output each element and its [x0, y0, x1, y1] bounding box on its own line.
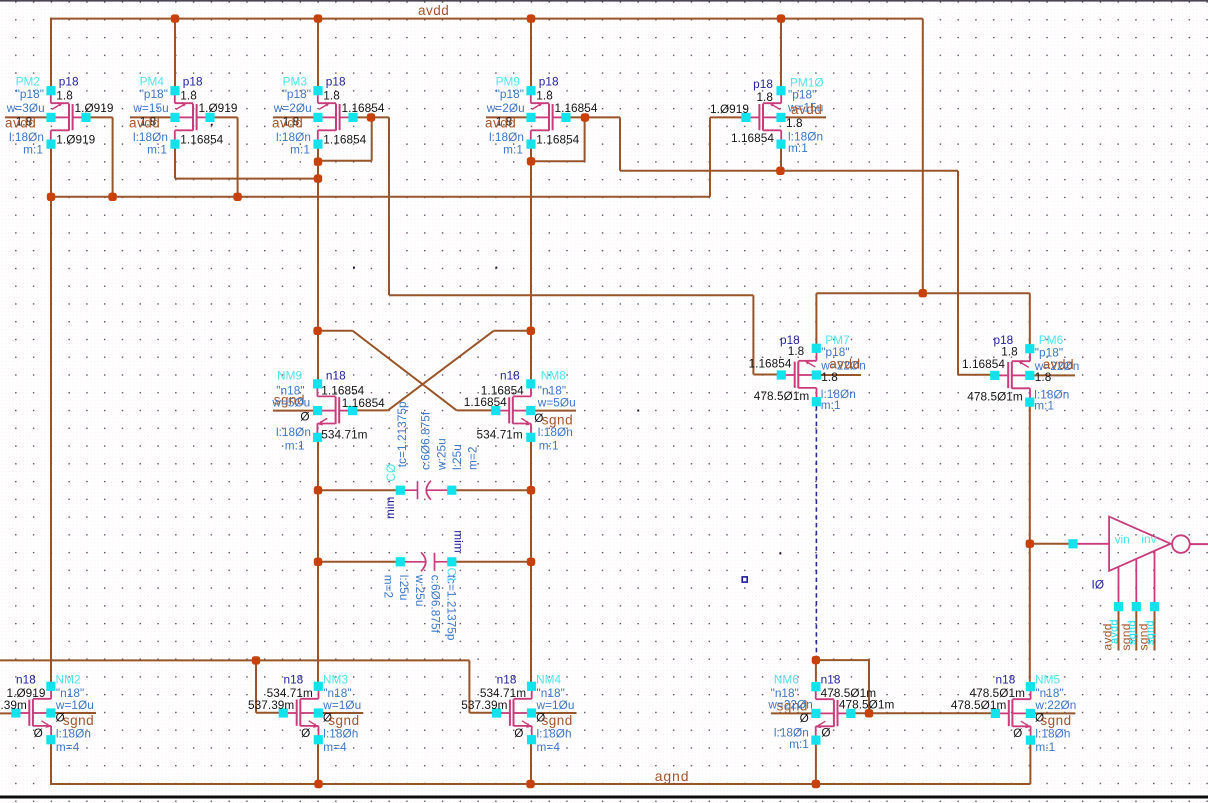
svg-text:1.16854: 1.16854 [731, 131, 774, 145]
wire PM9 gate drop [619, 117, 621, 170]
svg-text:m:1: m:1 [147, 143, 167, 157]
svg-text:n18: n18 [500, 369, 520, 383]
wire NM5 source to agnd [1029, 744, 1031, 784]
junction PM2 drain rail [47, 193, 55, 201]
pin I0 avdd [1114, 602, 1123, 611]
svg-text:l:25u: l:25u [397, 575, 411, 601]
junction agnd NM4 [526, 780, 534, 788]
wire NM9 bulk stub [273, 410, 318, 412]
transistor NM4 [500, 690, 532, 735]
pins PM6 [1025, 344, 1034, 353]
pin C1.1 [396, 557, 405, 566]
pins NM8 [526, 379, 535, 388]
transistor PM10 [750, 95, 782, 140]
svg-text:537.39m: 537.39m [461, 698, 507, 712]
svg-text:w:25u: w:25u [413, 574, 427, 607]
svg-text:Ø: Ø [301, 726, 310, 740]
wire PM3 diode loop horizontal [318, 160, 372, 162]
svg-text:n18: n18 [497, 673, 517, 687]
pins PM10 [776, 86, 785, 95]
wire avdd drop to PM3 [317, 19, 319, 87]
svg-text:478.5Ø1m: 478.5Ø1m [839, 698, 895, 712]
svg-text:1.8: 1.8 [786, 116, 803, 130]
wire PM3 gate long riser [388, 117, 390, 295]
svg-text:w=2Øu: w=2Øu [273, 101, 312, 115]
wire PM2 drain down long [50, 148, 52, 683]
pins NM3 [314, 682, 323, 691]
svg-text:NM2: NM2 [56, 673, 81, 687]
junction PM9 diode loop [527, 157, 535, 165]
svg-text:p18: p18 [753, 77, 773, 91]
svg-text:478.5Ø1m: 478.5Ø1m [967, 390, 1023, 404]
svg-text:"p18": "p18" [16, 87, 44, 101]
wire NM4 source to agnd [530, 744, 532, 785]
svg-text:avdd: avdd [485, 116, 516, 131]
inverter I0 [1077, 517, 1208, 603]
svg-text:avdd: avdd [5, 116, 36, 131]
wire PM6 drain down to NM5 [1029, 406, 1031, 682]
svg-text:1.16854: 1.16854 [555, 101, 598, 115]
svg-text:1.Ø919: 1.Ø919 [199, 101, 238, 115]
wire C0 right [454, 489, 531, 491]
transistor PM9 [531, 95, 563, 140]
wire NM4 bulk stub [532, 712, 577, 714]
svg-text:NM8: NM8 [541, 369, 566, 383]
svg-text:m=4: m=4 [323, 740, 347, 754]
wire NM6 gate to NM5 gate [854, 712, 994, 714]
wire PM9 bulk stub [486, 116, 531, 118]
wire PM3 drain down to NM9 [317, 148, 319, 381]
svg-text:1.16854: 1.16854 [180, 133, 223, 147]
wire C1 left [318, 561, 398, 563]
svg-text:m=4: m=4 [537, 740, 561, 754]
pins NM9 [313, 379, 322, 388]
dashed net PM7 drain [815, 406, 817, 657]
wire NM4 gate horizontal [469, 712, 499, 714]
svg-text:Ø: Ø [821, 725, 830, 739]
svg-text:inv: inv [1141, 532, 1156, 546]
svg-text:l:18Øn: l:18Øn [276, 425, 311, 439]
transistor NM2 [19, 690, 51, 735]
junction NM6 gate [865, 709, 873, 717]
svg-text:n18: n18 [283, 673, 303, 687]
svg-text:n18: n18 [996, 673, 1016, 687]
pins PM9 [526, 86, 535, 95]
svg-text:m:1: m:1 [290, 143, 310, 157]
wire PM4 bulk stub [130, 116, 175, 118]
wire X leg to NM9 gate [355, 409, 388, 411]
wire NM6 drain drop [815, 660, 817, 682]
svg-text:agnd: agnd [655, 768, 690, 784]
junction avdd-PM9 [527, 14, 535, 22]
svg-text:m:1: m:1 [1035, 740, 1055, 754]
svg-text:NM5: NM5 [1035, 673, 1060, 687]
wire X leg to NM8 gate [457, 409, 494, 411]
svg-text:avdd: avdd [272, 116, 303, 131]
svg-text:l:18Øn: l:18Øn [538, 425, 573, 439]
wire PM2 gate riser [112, 117, 114, 196]
wire NM2 gate stub from edge [0, 712, 12, 714]
svg-text:p18: p18 [59, 75, 79, 89]
svg-text:NM6: NM6 [774, 673, 799, 687]
wire cross couple diagonal 1 [353, 331, 457, 411]
wire PM6 gate horizontal [958, 374, 994, 376]
wire NM5 bulk stub [1030, 712, 1075, 714]
wire gate bias y660 [0, 659, 469, 661]
svg-text:n18: n18 [326, 369, 346, 383]
svg-text:w=22Øn: w=22Øn [767, 698, 813, 712]
svg-text:m:1: m:1 [539, 439, 559, 453]
svg-text:m:1: m:1 [503, 143, 523, 157]
wire PM3 diode loop vertical [371, 117, 373, 160]
agnd rail wire (bottom) [51, 783, 1030, 785]
svg-text:p18: p18 [539, 75, 559, 89]
svg-text:Ø: Ø [514, 726, 523, 740]
wire NM8 bulk stub [531, 410, 576, 412]
junction node outn NM8 drain [527, 327, 535, 335]
svg-text:l:18Øn: l:18Øn [537, 727, 572, 741]
wire rail riser x710 [709, 117, 711, 196]
svg-text:1.8: 1.8 [1035, 370, 1052, 384]
svg-text:1.16854: 1.16854 [536, 133, 579, 147]
wire NM6 source to agnd [815, 744, 817, 784]
svg-text:"p18": "p18" [788, 88, 816, 102]
pins PM2 [46, 86, 55, 95]
svg-text:avdd: avdd [418, 3, 449, 18]
pin C1.2 [447, 557, 456, 566]
svg-text:p18: p18 [326, 75, 346, 89]
svg-text:1.16854: 1.16854 [342, 101, 385, 115]
junction PM3 gate-drain [367, 113, 375, 121]
svg-text:avdd: avdd [129, 116, 160, 131]
wire PM10 drain drop [780, 148, 782, 171]
pin I0 input [1068, 539, 1077, 548]
wire avdd drop to PM10 [780, 19, 782, 87]
svg-text:mim: mim [452, 530, 466, 553]
svg-text:"p18": "p18" [140, 87, 168, 101]
svg-text:c:6Ø6.875f: c:6Ø6.875f [429, 575, 443, 634]
svg-text:m:1: m:1 [1034, 399, 1054, 413]
wire avdd branch y293 [816, 292, 1029, 294]
svg-text:w=2Øu: w=2Øu [486, 101, 525, 115]
note marker navy square [742, 577, 747, 582]
wire avdd right drop x922 [922, 19, 924, 294]
svg-text:1.Ø919: 1.Ø919 [75, 101, 114, 115]
wire mirror line y171 [620, 170, 958, 172]
wire X to NM8 drain [494, 330, 531, 332]
junction PM4 drain join [314, 174, 322, 182]
svg-text:1.8: 1.8 [756, 90, 773, 104]
junction avdd branch [919, 289, 927, 297]
wire PM2 bulk stub [5, 116, 51, 118]
transistor PM7 [785, 352, 817, 397]
junction C1 left [314, 558, 322, 566]
wire NM9 source down to NM3 [317, 437, 319, 682]
wire PM4 drain down [174, 148, 176, 179]
wire inverter input [1030, 543, 1071, 545]
wire NM3 bulk stub [318, 712, 363, 714]
junction node outp NM9 drain [313, 327, 321, 335]
svg-text:1.8: 1.8 [536, 89, 553, 103]
transistor NM3 [287, 690, 319, 735]
svg-text:mim: mim [383, 496, 397, 519]
wire NM2 source to agnd [50, 744, 52, 786]
wire NM3 gate horizontal [256, 712, 286, 714]
svg-text:m:1: m:1 [821, 398, 841, 412]
svg-text:m:1: m:1 [789, 737, 809, 751]
junction inverter input tap [1026, 540, 1034, 548]
junction C0 right [527, 486, 535, 494]
wire PM4 gate to bend [210, 116, 238, 118]
inverter stub tails [1118, 611, 1120, 651]
wire NM3 source to agnd [317, 744, 319, 785]
wire avdd drop to PM9 [530, 19, 532, 87]
svg-text:p18: p18 [183, 75, 203, 89]
transistor PM3 [318, 95, 350, 140]
svg-text:sgnd: sgnd [1145, 620, 1157, 645]
svg-text:537.39m: 537.39m [0, 698, 27, 712]
wire PM9 diode loop vertical [584, 117, 586, 161]
junction agnd NM6 [812, 780, 820, 788]
svg-text:NM3: NM3 [323, 673, 348, 687]
svg-text:NM4: NM4 [536, 673, 561, 687]
junction avdd-PM3 [314, 14, 322, 22]
wire NM4 gate riser [468, 660, 470, 712]
svg-text:1.8: 1.8 [323, 89, 340, 103]
wire NM6 gate riser [868, 660, 870, 713]
pins NM5 [1026, 682, 1035, 691]
junction PM4 gate rail [233, 193, 241, 201]
svg-text:1.Ø919: 1.Ø919 [56, 133, 95, 147]
svg-text:1.Ø919: 1.Ø919 [710, 102, 749, 116]
pins PM4 [170, 86, 179, 95]
wire cross couple diagonal 2 [388, 331, 494, 411]
wire PM2 gate to bend [86, 116, 113, 118]
capacitor C0 [404, 481, 448, 500]
svg-text:vin: vin [1115, 533, 1130, 547]
avdd rail wire (top) [51, 18, 923, 20]
svg-text:n18: n18 [16, 673, 36, 687]
svg-text:w=5Øu: w=5Øu [537, 396, 576, 410]
svg-text:534.71m: 534.71m [321, 428, 367, 442]
svg-text:tc=1.21375p: tc=1.21375p [395, 401, 409, 467]
wire C0 left [318, 489, 398, 491]
transistor PM6 [998, 353, 1030, 398]
wire PM7 gate drop x753 [752, 295, 754, 374]
svg-text:l:25u: l:25u [450, 444, 464, 470]
wire PM9 gate to riser [566, 116, 620, 118]
pins NM4 [527, 682, 536, 691]
svg-text:sgnd: sgnd [1127, 620, 1139, 645]
svg-text:m:1: m:1 [285, 439, 305, 453]
svg-text:1.8: 1.8 [821, 370, 838, 384]
transistor PM4 [175, 95, 207, 140]
junction C0 left [314, 486, 322, 494]
junction agnd NM3 [314, 780, 322, 788]
svg-text:m=2: m=2 [466, 447, 480, 470]
wire PM3 gate to PM7 y295 [389, 294, 753, 296]
svg-text:NM9: NM9 [277, 369, 302, 383]
svg-text:537.39m: 537.39m [248, 698, 294, 712]
junction PM3 diode loop [314, 158, 322, 166]
wire NM9 drain to X [318, 330, 353, 332]
wire PM4 drain horizontal [175, 178, 318, 180]
svg-text:avdd: avdd [791, 102, 822, 117]
pin C0.2 [447, 486, 456, 495]
transistor NM6 [816, 691, 848, 736]
svg-text:l:18Øn: l:18Øn [1035, 727, 1070, 741]
transistor NM5 [999, 691, 1031, 736]
wire PM9 diode loop horizontal [531, 160, 585, 162]
svg-text:1.8: 1.8 [56, 89, 73, 103]
pins PM3 [313, 86, 322, 95]
svg-text:Ø: Ø [800, 711, 809, 725]
svg-text:"p18": "p18" [496, 87, 524, 101]
svg-text:c:6Ø6.875f: c:6Ø6.875f [419, 411, 433, 470]
svg-text:1.16854: 1.16854 [962, 357, 1005, 371]
capacitor C1 [404, 552, 448, 571]
wire PM7 bulk stub [816, 374, 861, 376]
wire NM3 gate riser [255, 660, 257, 712]
svg-text:1.16854: 1.16854 [749, 356, 792, 370]
svg-text:C1: C1 [445, 568, 459, 583]
wire PM3 bulk stub [273, 116, 318, 118]
wire PM7 avdd drop [815, 293, 817, 348]
svg-text:m=2: m=2 [381, 575, 395, 598]
wire NM2 bulk stub [51, 712, 96, 714]
wire avdd drop to PM4 [174, 19, 176, 87]
svg-text:m:1: m:1 [788, 141, 808, 155]
svg-text:w=5Øu: w=5Øu [271, 396, 310, 410]
wire riser to PM10 gate [710, 116, 746, 118]
junction PM10 drain [776, 167, 784, 175]
wire PM6 bulk stub [1030, 374, 1075, 376]
svg-text:478.5Ø1m: 478.5Ø1m [754, 389, 810, 403]
svg-text:"p18": "p18" [283, 87, 311, 101]
wire PM10 bulk stub [781, 116, 826, 118]
svg-text:Ø: Ø [300, 410, 309, 424]
svg-text:n18: n18 [821, 673, 841, 687]
svg-text:tc=1.21375p: tc=1.21375p [444, 575, 458, 641]
junction avdd-PM10 [777, 14, 785, 22]
svg-text:IØ: IØ [1092, 577, 1105, 591]
junction NM3 gate tap [252, 656, 260, 664]
svg-text:1.16854: 1.16854 [342, 396, 385, 410]
svg-text:Ø: Ø [1013, 726, 1022, 740]
svg-text:m=4: m=4 [56, 740, 80, 754]
wire avdd drop to PM2 [50, 18, 52, 87]
wire NM8 source down to NM4 [530, 437, 532, 682]
wire mirror drop x958 [957, 171, 959, 375]
wire PM6 avdd drop [1029, 293, 1031, 349]
svg-text:avdd: avdd [1109, 619, 1121, 644]
wire PM9 drain down to NM8 [530, 148, 532, 381]
svg-text:l:18Øn: l:18Øn [323, 727, 358, 741]
wire bias rail y197 [51, 196, 710, 198]
pin C0.1 [396, 486, 405, 495]
svg-text:w=15u: w=15u [132, 101, 168, 115]
wire NM6 bulk stub [771, 712, 816, 714]
junction PM2 gate rail [108, 193, 116, 201]
pins NM2 [46, 682, 55, 691]
junction avdd-PM4 [171, 14, 179, 22]
wire C1 right [454, 561, 531, 563]
pin I0 sgnd1 [1132, 602, 1141, 611]
svg-text:l:18Øn: l:18Øn [56, 727, 91, 741]
transistor PM2 [51, 95, 83, 140]
junction PM9 gate-drain [581, 113, 589, 121]
wire PM7 gate horizontal [753, 374, 779, 376]
wire PM4 gate riser [237, 117, 239, 196]
transistor NM8 [499, 388, 531, 433]
svg-text:Ø: Ø [34, 726, 43, 740]
svg-text:1.8: 1.8 [180, 89, 197, 103]
pins PM7 [812, 344, 821, 353]
junction NM6 drain [812, 656, 820, 664]
svg-text:w:25u: w:25u [435, 438, 449, 471]
svg-text:1.16854: 1.16854 [464, 395, 507, 409]
pins NM6 [811, 682, 820, 691]
svg-text:534.71m: 534.71m [477, 428, 523, 442]
pin I0 sgnd2 [1150, 602, 1159, 611]
junction C1 right [527, 558, 535, 566]
wire PM3 gate to riser [353, 116, 389, 118]
transistor NM9 [317, 388, 349, 433]
svg-text:1.16854: 1.16854 [323, 133, 366, 147]
svg-text:478.5Ø1m: 478.5Ø1m [951, 698, 1007, 712]
wire NM6 drain tap y660 [816, 659, 869, 661]
svg-text:m:1: m:1 [23, 143, 43, 157]
svg-text:w=3Øu: w=3Øu [6, 101, 45, 115]
